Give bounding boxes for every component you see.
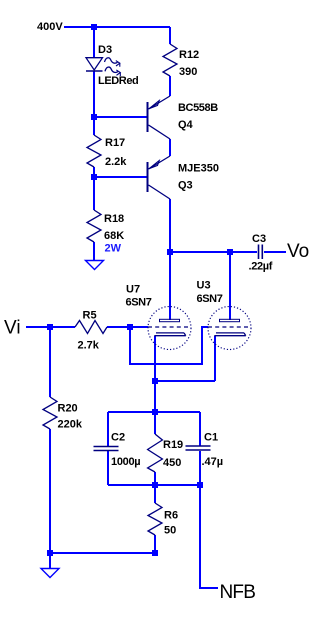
ground (bottom left) — [41, 569, 59, 578]
tube U7 cathode — [154, 333, 186, 336]
svg-text:U3: U3 — [197, 280, 211, 292]
svg-text:6SN7: 6SN7 — [197, 293, 223, 305]
svg-text:Q3: Q3 — [178, 180, 193, 192]
diode D3 cathode bar — [86, 70, 103, 72]
svg-text:.47µ: .47µ — [202, 456, 224, 468]
svg-text:MJE350: MJE350 — [178, 163, 219, 175]
node grid junction — [127, 324, 133, 330]
svg-text:Vi: Vi — [4, 318, 21, 339]
resistor R6 — [148, 503, 162, 535]
node R6 top junction — [152, 482, 158, 488]
tube U7 envelope — [148, 307, 191, 350]
svg-text:D3: D3 — [98, 44, 112, 56]
svg-text:C1: C1 — [204, 432, 218, 444]
wire cathode tie — [155, 380, 215, 382]
wire R12 top lead — [169, 27, 171, 44]
wire R12 to Q4 emitter — [169, 76, 171, 96]
wire Q4 base — [94, 116, 147, 118]
capacitor C1 plates — [186, 446, 211, 450]
diode D3 light arrow 1 — [105, 58, 118, 63]
wire cathode node down — [154, 381, 156, 412]
svg-text:450: 450 — [163, 457, 181, 469]
svg-text:C2: C2 — [111, 432, 125, 444]
resistor R19 — [148, 434, 163, 472]
wire 400V top rail — [64, 26, 170, 28]
svg-text:BC558B: BC558B — [178, 102, 218, 114]
node Vi junction — [47, 324, 53, 330]
wire Q3 collector to U7 anode — [169, 199, 171, 320]
tube U3 grid — [208, 326, 251, 328]
wire Q3 base — [94, 176, 147, 178]
svg-text:2W: 2W — [105, 243, 122, 255]
node R6 bottom junction — [152, 550, 158, 556]
resistor R18 — [87, 210, 101, 242]
wire grid node to U7 grid — [130, 326, 148, 328]
resistor R5 — [75, 321, 107, 334]
svg-text:R12: R12 — [179, 49, 199, 61]
wire RC bottom rail — [108, 484, 200, 486]
wire R6 leads — [154, 485, 156, 553]
node Q4 base junction — [91, 114, 97, 120]
transistor Q4 — [148, 96, 171, 139]
svg-text:LEDRed: LEDRed — [98, 75, 138, 87]
wire RC top rail — [108, 411, 200, 413]
wire R20 to ground — [49, 429, 51, 568]
tube U3 plate — [220, 319, 240, 321]
capacitor C2 plates — [94, 447, 119, 451]
node Q3 base junction — [91, 174, 97, 180]
wire grid node to U3 grid loop — [130, 327, 208, 364]
wire Vi node to R5 — [50, 326, 75, 328]
node ground-left junction — [47, 550, 53, 556]
wire C2 leads — [107, 412, 109, 485]
svg-text:R6: R6 — [164, 510, 178, 522]
wire anode rail — [170, 251, 230, 253]
wire R5 to grid node — [107, 326, 130, 328]
svg-text:400V: 400V — [37, 21, 63, 33]
wire C3 to Vo — [264, 251, 286, 253]
svg-text:R18: R18 — [104, 213, 124, 225]
diode D3 LED triangle — [86, 58, 103, 70]
tube U3 envelope — [208, 307, 251, 350]
wire node to R17 — [93, 117, 95, 135]
capacitor C3 plates — [259, 245, 263, 260]
tube U7 plate — [160, 319, 180, 321]
wire node to R18 — [93, 177, 95, 210]
svg-text:U7: U7 — [126, 284, 140, 296]
wire R19 leads — [154, 412, 156, 485]
node R19 top junction — [152, 409, 158, 415]
node anode U7 junction — [167, 249, 173, 255]
svg-text:6SN7: 6SN7 — [126, 297, 152, 309]
tube U3 cathode — [214, 333, 246, 336]
resistor R12 — [163, 44, 177, 76]
diode D3 light arrow 2 — [105, 67, 118, 72]
svg-text:.22µf: .22µf — [249, 261, 273, 273]
svg-text:2.7k: 2.7k — [78, 340, 100, 352]
svg-text:390: 390 — [179, 66, 197, 78]
svg-text:Q4: Q4 — [178, 119, 194, 131]
wire Q4 collector to Q3 emitter — [169, 139, 171, 156]
node anode U3 junction — [227, 249, 233, 255]
ground (top, below R18) — [86, 261, 104, 270]
svg-text:R5: R5 — [83, 310, 97, 322]
wire U3 anode — [229, 252, 231, 320]
node cathode junction — [152, 378, 158, 384]
svg-text:R19: R19 — [163, 439, 183, 451]
wire R18 to ground — [93, 242, 95, 260]
wire to LED anode — [93, 27, 95, 58]
svg-text:Vo: Vo — [287, 241, 309, 262]
svg-text:220k: 220k — [58, 419, 83, 431]
wire LED cathode to node — [93, 71, 95, 117]
wire U7 cathode — [154, 336, 156, 381]
svg-text:2.2k: 2.2k — [105, 156, 127, 168]
wire R17 to node — [93, 167, 95, 177]
wire Vi input — [26, 326, 50, 328]
wire bottom return — [50, 552, 155, 554]
node 400V/LED junction — [91, 24, 97, 30]
wire U3 cathode — [214, 336, 216, 381]
wire Vi node to R20 — [49, 327, 51, 397]
tube U7 grid — [148, 326, 191, 328]
wire NFB — [200, 485, 218, 588]
wire C1 leads — [199, 412, 201, 485]
node NFB junction — [197, 482, 203, 488]
svg-text:R20: R20 — [58, 403, 78, 415]
svg-text:C3: C3 — [252, 233, 266, 245]
wire to C3 — [230, 251, 257, 253]
svg-text:1000µ: 1000µ — [111, 456, 140, 468]
resistor R20 — [43, 397, 57, 429]
resistor R17 — [87, 135, 101, 167]
svg-text:50: 50 — [164, 525, 176, 537]
svg-text:R17: R17 — [105, 137, 125, 149]
transistor Q3 — [148, 156, 171, 199]
svg-text:NFB: NFB — [220, 582, 256, 603]
svg-text:68K: 68K — [104, 230, 124, 242]
